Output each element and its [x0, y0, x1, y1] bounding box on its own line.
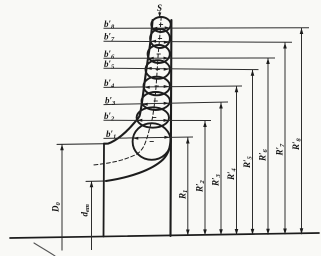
- arrow R'7 top: [283, 43, 287, 49]
- dimension R'5: [252, 70, 254, 235]
- wire leader b'2 / R'2: [104, 119, 212, 121]
- circle b3: [142, 92, 170, 110]
- mean streamline dashed: [94, 18, 161, 165]
- width arrows b2: [137, 119, 143, 122]
- dimension R'8: [301, 28, 303, 234]
- circle b6: [148, 45, 170, 63]
- width arrows b5: [146, 67, 152, 70]
- arrow R'2 top: [203, 121, 207, 127]
- axis centerline: [10, 233, 319, 238]
- arrow R'4 bottom: [235, 229, 239, 235]
- circle b8: [151, 17, 170, 32]
- arrow R1 bottom: [186, 230, 190, 236]
- circle center ticks: [150, 25, 164, 142]
- arrow R'7 bottom: [283, 229, 287, 235]
- circle b7: [150, 29, 170, 48]
- arrow R1 top: [186, 138, 190, 144]
- arrow R'4 top: [235, 86, 239, 92]
- dimension R'6: [267, 58, 269, 235]
- wire leader b'8 / R'8: [104, 27, 310, 30]
- outer shroud wall: [104, 20, 153, 144]
- wire hub extension line: [86, 180, 106, 182]
- width arrows b6: [148, 57, 154, 60]
- inlet face wall: [103, 144, 106, 237]
- arrow R'6 top: [266, 58, 270, 64]
- dimension R'4: [236, 86, 238, 235]
- page curl artifact: [34, 243, 55, 256]
- svg-text:S: S: [157, 3, 162, 13]
- wire leader b'3 / R'3: [104, 102, 229, 105]
- dimension R'3: [220, 103, 222, 236]
- dimension D0: [61, 144, 63, 250]
- width arrows b7: [151, 40, 157, 43]
- arrow d top: [90, 181, 94, 187]
- arrowheads: [60, 13, 303, 236]
- wire leader b'5 / R'5: [104, 68, 259, 69]
- leader S: [159, 12, 161, 17]
- hub wall: [106, 139, 171, 181]
- dimension R'2: [204, 121, 206, 235]
- wire leader b'7 / R'7: [104, 41, 293, 42]
- arrow S: [158, 13, 161, 18]
- circle b1: [133, 123, 171, 160]
- circle b2: [137, 107, 169, 127]
- dimension d hub: [91, 181, 93, 250]
- arrow R'3 bottom: [219, 229, 223, 235]
- width arrows b4: [144, 86, 150, 89]
- arrow R'6 bottom: [266, 229, 270, 235]
- dimension R'7: [284, 43, 286, 235]
- width arrows b1: [133, 137, 139, 140]
- wire leader b'4 / R'4: [104, 86, 243, 87]
- wire outer shroud extension line: [57, 143, 104, 146]
- wire leader b'6 / R'6: [104, 57, 276, 59]
- arrow D0 top: [60, 144, 64, 150]
- arrow R'3 top: [219, 103, 223, 109]
- circle b4: [144, 77, 170, 96]
- circle b5: [146, 60, 170, 79]
- arrow R'5 bottom: [251, 229, 255, 235]
- wire leader b'1 / R1: [104, 137, 194, 138]
- arrow R'5 top: [251, 70, 255, 76]
- dimension R1: [187, 138, 189, 236]
- width arrows b3: [142, 103, 148, 106]
- hub rear face / right channel edge: [169, 20, 172, 236]
- width arrows b8: [152, 27, 158, 30]
- arrow R'8 top: [300, 28, 304, 34]
- arrow R'2 bottom: [203, 229, 207, 235]
- arrow R'8 bottom: [300, 228, 304, 234]
